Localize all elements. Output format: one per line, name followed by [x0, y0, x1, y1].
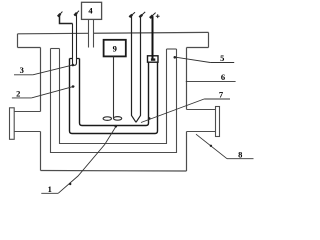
bath right wall lower segment: [186, 132, 188, 172]
svg-text:6: 6: [221, 72, 225, 82]
label 3 leader: [33, 65, 74, 75]
label 1 leader: [58, 126, 116, 194]
label 8 underline: [227, 158, 254, 160]
svg-text:1: 1: [48, 184, 52, 194]
pointed electrode right line: [136, 16, 141, 122]
box 4 neck right: [93, 19, 95, 47]
vessel left rim: [70, 58, 80, 60]
label 1 arrowhead: [115, 125, 118, 128]
bath left wall lower segment: [40, 132, 42, 171]
label 7 arrowhead: [148, 117, 151, 120]
vessel inner wall: [80, 59, 149, 126]
lid bottom left overhang: [18, 47, 41, 49]
stirrer paddle right blade: [114, 117, 122, 121]
svg-text:2: 2: [16, 88, 20, 98]
svg-text:5: 5: [220, 53, 224, 63]
box 4 neck left: [88, 19, 90, 47]
lid right edge: [208, 32, 210, 47]
arrow on anode wire: [150, 13, 156, 18]
plus sign: [156, 14, 160, 18]
label 3 underline: [14, 74, 33, 76]
label 2 underline: [12, 97, 32, 99]
label 3 arrowhead: [72, 64, 75, 67]
arrow on wire B: [74, 11, 79, 16]
label 7 leader: [141, 99, 204, 123]
label 5 arrowhead: [174, 56, 177, 59]
vessel outer wall: [70, 59, 158, 134]
anode wire (+): [152, 17, 154, 59]
svg-text:9: 9: [113, 43, 117, 53]
box 4: [82, 2, 102, 19]
electrode wire left A (elbow): [60, 16, 73, 24]
left pipe bottom wall: [14, 131, 40, 133]
motor box 9: [104, 40, 126, 57]
label 1 underline: [41, 192, 58, 194]
anode wire terminal blob: [151, 58, 155, 60]
label 7 underline: [204, 98, 230, 100]
stirrer paddle left blade: [103, 117, 111, 121]
arrow on wire A: [58, 12, 63, 17]
label 5 underline: [210, 62, 234, 64]
arrow on pointed electrode line 2: [139, 12, 145, 17]
bath right wall upper segment: [186, 48, 188, 110]
stirrer shaft: [113, 56, 115, 118]
jacket right rim: [167, 48, 177, 50]
label 5 leader: [176, 57, 211, 62]
label 2 arrowhead: [72, 85, 75, 88]
lid top edge: [18, 32, 209, 33]
pointed electrode left line: [132, 16, 137, 122]
vessel anode cap box: [148, 56, 159, 62]
bath bottom: [41, 170, 187, 173]
electrode wire left B: [76, 15, 78, 63]
label 8 leader: [196, 134, 227, 159]
left pipe flange: [10, 108, 15, 140]
electrode wire left A drop: [73, 24, 77, 66]
bath left wall upper segment: [40, 48, 42, 112]
label 6 leader line: [186, 81, 236, 83]
jacket inner wall: [60, 49, 167, 144]
left pipe top wall: [14, 111, 40, 113]
lid left edge: [17, 34, 19, 48]
arrow on pointed electrode line 1: [129, 12, 135, 17]
svg-text:8: 8: [238, 150, 242, 160]
label 2 leader: [31, 86, 74, 98]
right pipe top wall: [187, 109, 216, 111]
jacket outer wall: [51, 49, 177, 153]
jacket left rim: [51, 48, 60, 50]
right pipe flange: [216, 107, 220, 137]
svg-text:3: 3: [20, 65, 24, 75]
label 8 leader dot: [210, 145, 212, 147]
right pipe bottom wall: [187, 131, 216, 133]
lid bottom right overhang: [187, 47, 209, 49]
label 1 leader dot: [69, 183, 71, 185]
